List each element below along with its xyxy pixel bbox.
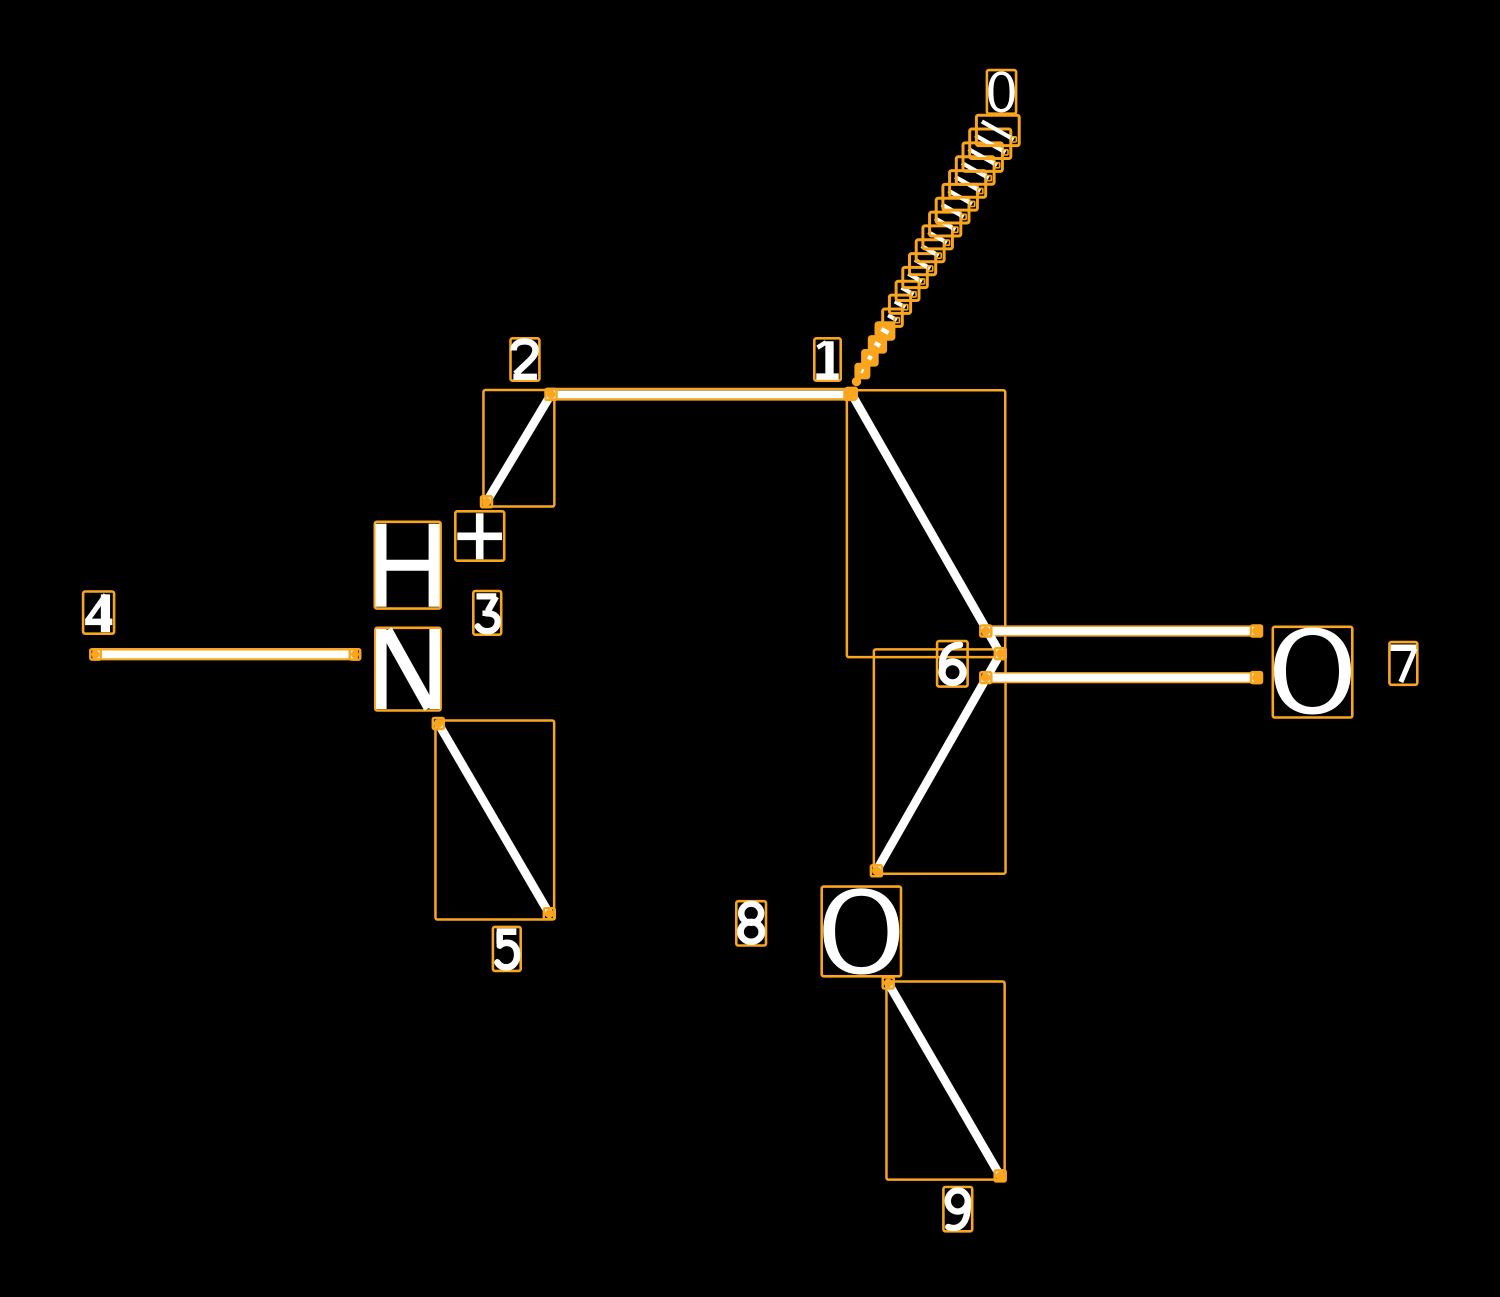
hash dash 11 xyxy=(928,232,947,242)
hash dash 19 end nub xyxy=(1011,137,1016,142)
hash dash 16 xyxy=(962,163,989,178)
atom N3 label H xyxy=(375,522,441,609)
atom O7 label O xyxy=(1273,627,1353,718)
index 2 (C2) xyxy=(511,338,540,380)
index 9 (C methyl) xyxy=(943,1187,972,1231)
bond 1-6 end marker at C1 xyxy=(846,388,857,399)
hash dash 6 end nub xyxy=(903,305,908,310)
bond C2-C1 xyxy=(551,390,850,398)
hash dash 15 xyxy=(955,177,980,191)
bond 6-8 end marker at O8 xyxy=(871,865,882,876)
hash dash 9 end nub xyxy=(928,266,933,271)
index 0 (C methyl hash) xyxy=(987,70,1016,114)
index 5 (C methyl) xyxy=(493,927,521,971)
hash dash 15 box xyxy=(950,171,986,198)
index 3 (N) xyxy=(473,591,501,635)
hash dash 19 box xyxy=(976,115,1019,145)
bond C1-C6 xyxy=(851,393,1000,653)
hash dash 19 xyxy=(982,121,1014,139)
C6=O7 lower line xyxy=(986,674,1257,682)
hash dash 2 box xyxy=(863,351,878,366)
index 1 (C1) xyxy=(814,338,840,380)
hash dash 5 xyxy=(888,315,897,320)
index 7 (O) xyxy=(1389,642,1417,685)
N3 charge plus xyxy=(455,511,504,560)
hash dash 14 xyxy=(948,191,972,204)
index 4 (C methyl) xyxy=(83,592,114,634)
hash dash 1 box xyxy=(856,364,869,378)
hash dash 6 box xyxy=(889,295,910,313)
hash dash 12 box xyxy=(930,212,961,236)
bond 1-2 end marker at C1 xyxy=(845,389,856,400)
C=O lower left marker xyxy=(980,672,991,683)
C=O upper left marker xyxy=(980,626,991,637)
bond 1-6 bbox xyxy=(847,390,1005,657)
bond 3-4 bbox xyxy=(93,649,357,659)
hash dash 4 xyxy=(881,329,888,333)
hash dash 10 xyxy=(922,246,939,256)
hash dash 16 box xyxy=(956,157,994,185)
hash dash 3 box xyxy=(869,337,885,353)
hash dash 8 box xyxy=(903,267,928,287)
hash dash 17 end nub xyxy=(994,163,999,168)
C=O lower line bbox xyxy=(983,673,1261,682)
bond 8-9 bbox xyxy=(886,981,1004,1179)
hash dash 12 end nub xyxy=(953,227,958,232)
hash dash 18 xyxy=(975,135,1005,152)
index 8 (O ester) xyxy=(736,901,766,945)
bond 8-9 end marker at C9 xyxy=(995,1170,1006,1181)
hash dash 1 xyxy=(861,371,863,372)
bond N3-C4 xyxy=(96,651,356,659)
hash dash 6 xyxy=(895,301,905,307)
bond 2-3 end marker near N xyxy=(481,496,492,507)
C6=O7 upper line xyxy=(986,627,1257,635)
hash dash 18 end nub xyxy=(1003,150,1008,155)
bond C2-N3 xyxy=(487,394,552,501)
atom O8 label O xyxy=(822,887,901,977)
hash dash 5 box xyxy=(883,309,903,326)
index 6 (C carbonyl) xyxy=(937,641,968,687)
hash dash 10 box xyxy=(916,240,944,262)
bond 3-4 end marker at C4 xyxy=(90,649,100,659)
hash dash 11 box xyxy=(923,226,953,249)
hash dash 10 end nub xyxy=(936,253,941,258)
hash dash 14 box xyxy=(943,184,978,210)
hash dash 8 end nub xyxy=(919,279,924,284)
hash dash 2 xyxy=(868,357,872,359)
hash dash 17 xyxy=(969,149,998,165)
hash dash 9 xyxy=(915,260,930,269)
hash dash 18 box xyxy=(970,129,1011,159)
hash dash 13 xyxy=(942,205,964,217)
hash dash 16 end nub xyxy=(986,176,991,181)
bond 3-4 end marker at N xyxy=(350,649,360,659)
hash dash 13 end nub xyxy=(961,214,966,219)
hash dash 9 box xyxy=(910,254,936,275)
atom N3 label N xyxy=(375,628,440,711)
bond 3-5 end marker at N xyxy=(433,718,444,729)
hash dash 17 box xyxy=(963,143,1002,172)
hash dash 4 box xyxy=(876,323,894,339)
bond 8-9 end marker at O8 xyxy=(883,978,894,989)
bond 3-5 end marker at C5 xyxy=(544,908,555,919)
hash dash 8 xyxy=(908,274,922,282)
bond 6-8 bbox xyxy=(874,649,1006,873)
bond 3-5 bbox xyxy=(435,720,554,919)
hash wedge start dot at atom 1 xyxy=(852,377,861,386)
hash dash 15 end nub xyxy=(978,188,983,193)
node C6 marker xyxy=(995,648,1006,659)
hash dash 14 end nub xyxy=(969,201,974,206)
hash dash 13 box xyxy=(936,198,969,223)
bond O8-C9 xyxy=(888,983,1000,1176)
bond C6-O8 xyxy=(876,654,1000,871)
hash dash 7 end nub xyxy=(911,292,916,297)
bond 2-3 bbox xyxy=(483,390,554,507)
C=O upper right marker xyxy=(1251,626,1262,637)
C=O upper line bbox xyxy=(983,627,1261,636)
hash dash 3 xyxy=(875,343,880,346)
hash dash 7 xyxy=(902,288,914,295)
hash dash 11 end nub xyxy=(944,240,949,245)
node C2 marker xyxy=(546,389,557,400)
bond N3-C5 xyxy=(438,724,549,914)
hash dash 7 box xyxy=(896,281,919,300)
bond 1-2 bbox xyxy=(547,389,855,399)
hash dash 5 end nub xyxy=(894,318,899,323)
hash dash 12 xyxy=(935,218,955,229)
C=O lower right marker xyxy=(1251,672,1262,683)
